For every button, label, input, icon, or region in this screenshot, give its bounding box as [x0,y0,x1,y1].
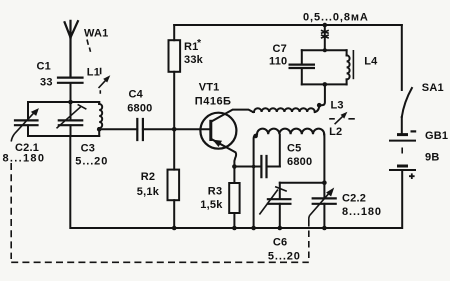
wire: bottom rail [70,136,402,228]
capacitor C1 [58,78,83,102]
svg-text:5,1k: 5,1k [137,186,160,198]
battery GB1 [390,131,416,228]
wire [70,83,72,102]
svg-text:C5: C5 [287,143,301,155]
node: L2 left end [253,134,258,139]
svg-text:110: 110 [269,56,287,68]
antenna WA1 [65,21,91,77]
svg-text:6800: 6800 [287,156,312,168]
resistor R3 [229,167,239,229]
svg-text:L2: L2 [329,126,342,138]
capacitor C2.2 (variable) [309,183,336,228]
inductor L1 (right edge of box) [99,102,102,136]
resistor R2 [168,129,180,228]
switch SA1 [402,25,412,134]
svg-text:L4: L4 [364,56,378,68]
wire: top rail [174,24,402,26]
transistor VT1 [200,110,253,167]
capacitor C5 [261,135,279,177]
inductor L2 [257,129,324,135]
wire: tie line [280,182,325,184]
current break marks [321,25,329,50]
node: base/divider junction [172,127,177,132]
svg-text:C7: C7 [273,43,287,55]
svg-text:5...20: 5...20 [268,251,301,263]
capacitor C2.1 (variable, on left edge) [11,102,39,142]
svg-text:C2.2: C2.2 [342,193,366,205]
L3/L2 coupling arrow [329,112,355,124]
svg-text:1,5k: 1,5k [200,199,223,211]
svg-text:5...20: 5...20 [75,156,108,168]
dashed gang link [11,163,309,262]
wire: riser to trap tank [319,84,325,105]
svg-text:WA1: WA1 [84,28,108,40]
wire: tap to C4 [99,128,137,130]
svg-text:П416Б: П416Б [195,96,232,108]
node: tie junction [322,180,327,185]
svg-text:C4: C4 [129,89,144,101]
resistor R1 [169,25,181,129]
svg-text:VT1: VT1 [199,82,220,94]
L1 adjuster arrow [99,68,111,94]
svg-text:33: 33 [40,77,53,89]
capacitor C4 [137,119,209,140]
wire: left edge of output box [254,134,257,228]
inductor L3 (collector coil) [253,105,319,112]
svg-text:C1: C1 [37,61,51,73]
svg-text:C6: C6 [273,237,287,249]
svg-text:9В: 9В [425,152,439,164]
wire: box bottom rail [28,135,99,137]
svg-text:8...180: 8...180 [3,153,46,165]
svg-text:R2: R2 [141,171,155,183]
capacitor C6 (trimmer) [259,183,290,228]
svg-text:L1: L1 [87,67,100,79]
node: C1 to tank junction [68,100,73,105]
node: L3 to tank [317,103,322,108]
capacitor C3 (trimmer, centre branch) [57,102,87,136]
wire: emitter to C5 [234,166,261,168]
svg-text:GB1: GB1 [425,130,448,142]
wire: L2 right end down [323,134,325,183]
svg-text:R3: R3 [208,185,222,197]
svg-text:C3: C3 [81,143,95,155]
svg-text:33k: 33k [184,54,204,66]
svg-text:6800: 6800 [127,103,152,115]
trap tank C7/L4 [290,48,347,86]
svg-text:SA1: SA1 [422,82,444,94]
node: top rail / meter branch [323,23,328,28]
input tank box: top rail [28,101,99,103]
node: emitter junction [232,164,237,169]
svg-text:0,5...0,8мА: 0,5...0,8мА [303,12,369,24]
svg-text:8...180: 8...180 [342,206,382,218]
node: L1 tap [97,127,102,132]
inductor L4 [347,50,354,84]
svg-text:L3: L3 [331,100,344,112]
